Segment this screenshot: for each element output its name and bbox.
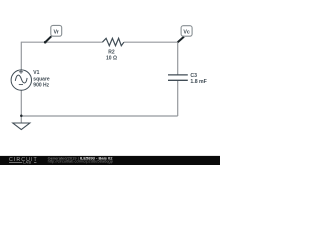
wire: right vertical upper (177, 42, 179, 75)
svg-text:square: square (33, 76, 50, 82)
footer bar (0, 156, 220, 165)
svg-text:R2: R2 (108, 50, 115, 56)
svg-text:Vr: Vr (54, 29, 59, 35)
svg-text:LAB: LAB (23, 161, 31, 165)
svg-text:1.8 mF: 1.8 mF (190, 79, 206, 85)
svg-text:http://circuitlab.com/c/p2d6u5: http://circuitlab.com/c/p2d6u58a6qgp (48, 159, 114, 164)
wire: bottom horizontal (21, 115, 177, 117)
flag Vc pin wedge (178, 37, 184, 43)
V1 sine squiggle (15, 75, 27, 83)
flag Vc box (181, 26, 192, 37)
V1 minus sign (19, 84, 23, 86)
junction dot (20, 115, 23, 118)
V1 plus sign (19, 70, 23, 74)
svg-text:V1: V1 (33, 70, 39, 76)
ground (13, 123, 30, 130)
svg-text:Vc: Vc (183, 30, 190, 36)
wire: ground stub (20, 116, 22, 123)
capacitor C3 (168, 75, 188, 80)
wire: right vertical lower (177, 80, 179, 116)
svg-text:10 Ω: 10 Ω (106, 56, 117, 62)
wire: left vertical upper (20, 42, 22, 70)
flag Vr node dot (44, 41, 47, 44)
wire: top horizontal left segment (21, 41, 102, 43)
resistor R2 (102, 38, 124, 45)
flag Vr box (51, 25, 62, 36)
CircuitLab logo second row (9, 161, 36, 163)
wire: left vertical lower (20, 90, 22, 116)
wire: top horizontal right segment (124, 41, 178, 43)
svg-text:900 Hz: 900 Hz (33, 82, 49, 88)
flag Vr pin wedge (45, 36, 51, 42)
voltage source V1 (11, 70, 31, 90)
